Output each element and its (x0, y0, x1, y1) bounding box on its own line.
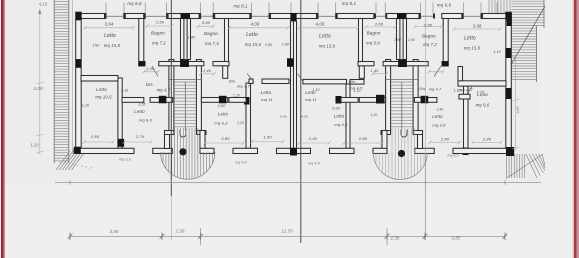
svg-text:3,00: 3,00 (218, 104, 227, 108)
svg-text:0,40: 0,40 (280, 115, 287, 119)
pier: left wall mid (76, 59, 82, 68)
canopy hatch east (376, 128, 424, 180)
pier: left wall top (76, 12, 82, 20)
svg-text:Letto: Letto (96, 87, 107, 92)
svg-text:Dis.: Dis. (229, 79, 237, 84)
wall: bagno duct west leaf (181, 19, 184, 60)
right dimension vertical line (515, 56, 517, 150)
svg-text:mq 9,6: mq 9,6 (432, 123, 446, 128)
left dim ticks (36, 135, 44, 136)
balcony rail verticals above top wall (right) (489, 0, 510, 13)
wall: top exterior seg B (right) (442, 14, 463, 19)
svg-text:2,90: 2,90 (407, 38, 415, 42)
svg-text:1,50: 1,50 (263, 135, 272, 140)
svg-text:mq 11: mq 11 (305, 97, 317, 102)
svg-text:mq 4,7: mq 4,7 (157, 88, 171, 93)
svg-text:Bagno: Bagno (422, 34, 436, 39)
svg-text:Letto: Letto (334, 114, 345, 119)
wall: corridor jog top (right) (358, 62, 374, 66)
svg-text:2,80: 2,80 (90, 134, 100, 139)
wall: letto 15,9 bottom (right) (458, 81, 506, 86)
svg-text:3,00: 3,00 (332, 107, 341, 111)
pier: left wall bottom (74, 147, 81, 154)
door leaf: letto 11 west (247, 74, 254, 83)
wall: bagno/letto divider V4 (225, 19, 229, 66)
right stair rail lines (536, 26, 538, 82)
left dimension vertical line (39, 9, 41, 155)
pier: corridor stair top (right) (398, 59, 407, 67)
svg-text:mq 6,9: mq 6,9 (366, 41, 380, 46)
pier: lower corridor west (right) (421, 96, 429, 104)
wall: bagno/letto divider V4 (right) (359, 19, 363, 66)
wall: stair flank east top (right) (359, 98, 385, 103)
wall: top exterior seg B (124, 14, 145, 19)
pier: V6 bottom (118, 139, 125, 147)
svg-text:Letto: Letto (464, 36, 476, 42)
wall: letto/bagno divider V2 (139, 19, 144, 66)
svg-text:mq 10,5: mq 10,5 (95, 95, 112, 100)
wall: entrance bracket west foot (right) (415, 148, 435, 153)
svg-text:mq 4,7: mq 4,7 (237, 84, 251, 89)
pier: top wall bagno divider (181, 13, 191, 19)
svg-text:4,00: 4,00 (33, 86, 43, 91)
wall: entrance bracket west foot (153, 148, 173, 153)
svg-text:Letto: Letto (104, 33, 116, 39)
pier: top wall party (290, 13, 293, 21)
svg-text:2,76: 2,76 (135, 134, 145, 139)
wall: top exterior seg A (78, 14, 106, 19)
svg-text:2,90: 2,90 (393, 38, 401, 42)
bottom dimension ticks (68, 233, 508, 241)
svg-text:mq 11: mq 11 (261, 97, 273, 102)
entrance column west (179, 148, 186, 155)
wall: top exterior seg D (213, 14, 251, 19)
svg-text:1,10: 1,10 (353, 89, 360, 93)
stair landing edge (right) (386, 79, 418, 81)
svg-text:mq 15,8: mq 15,8 (104, 43, 121, 48)
svg-text:2,50: 2,50 (155, 20, 165, 25)
pier: V6 bottom (right) (463, 148, 469, 156)
wall: top exterior seg A (right) (481, 14, 509, 19)
wall: stair shaft right (right) (386, 60, 391, 131)
svg-text:1,90: 1,90 (282, 43, 290, 47)
svg-text:Letto: Letto (246, 32, 258, 38)
wall: party wall center (291, 21, 294, 148)
svg-text:mq 13,6: mq 13,6 (319, 44, 336, 49)
wall: bagno strip bottom west (139, 62, 145, 66)
svg-text:1,55: 1,55 (138, 103, 145, 107)
right stair center rail (401, 82, 403, 130)
svg-text:4,10: 4,10 (39, 2, 48, 7)
bottom-right vertical hatch block (507, 154, 525, 178)
svg-text:mq 8,1: mq 8,1 (233, 4, 248, 9)
pier: corridor party (287, 58, 294, 67)
wall: top exterior seg E (center) (right) (294, 14, 319, 19)
left stair bottom diagonal fan (56, 151, 86, 170)
red border left edge (0, 0, 1, 258)
svg-text:mq 7,2: mq 7,2 (423, 42, 437, 47)
wall: letto 11 top b (262, 79, 289, 84)
bottom dimension plus crosses (200, 228, 202, 245)
wall: bottom-room divider V6 (right) (464, 86, 469, 148)
svg-text:mq 15,9: mq 15,9 (464, 46, 481, 51)
wall: entrance bracket east jog (right) (381, 131, 391, 135)
svg-text:2,80: 2,80 (220, 136, 230, 141)
wall: entrance bracket east foot (right) (373, 148, 387, 153)
wall: entrance bracket west vertical (right) (418, 131, 423, 149)
wall: left exterior (76, 12, 82, 153)
wall: letto 9,6 top (right) (459, 94, 470, 99)
left stair shaft treads (175, 82, 197, 127)
svg-text:1,10: 1,10 (82, 104, 89, 108)
door leaf: letto 11 east (298, 74, 304, 83)
wall: letto divider V9 (right) (346, 84, 350, 148)
entrance door column west (U shape) (180, 130, 186, 138)
wall: stair shaft top (right) (383, 62, 428, 66)
door leaf: corridor west (152, 66, 158, 77)
svg-text:4,00: 4,00 (251, 22, 260, 27)
wall: letto divider V9 (246, 83, 251, 148)
wall: entrance bracket east vertical (200, 131, 205, 149)
left external stair: side rails (53, 0, 55, 163)
svg-text:Dis.: Dis. (349, 79, 357, 84)
svg-text:3,94: 3,94 (105, 22, 114, 27)
wall: entrance bracket west vertical (165, 131, 170, 149)
wall: corridor jog top (213, 62, 229, 66)
svg-text:2,60: 2,60 (374, 22, 384, 27)
wall: letto 15,9 bottom stub (right) (458, 67, 463, 81)
svg-text:Dis.: Dis. (146, 82, 154, 87)
pier: top wall party (right) (294, 13, 297, 21)
wall: entrance bracket west jog (165, 131, 174, 135)
svg-text:mq 8,1: mq 8,1 (342, 1, 357, 6)
wall: letto 11 top (right) (341, 98, 358, 103)
svg-text:0,60: 0,60 (202, 21, 211, 25)
svg-text:2,30: 2,30 (390, 236, 400, 241)
svg-text:mq 6,6: mq 6,6 (437, 3, 452, 8)
pier: H4 cap (right) (336, 96, 342, 104)
wall: corridor jog V4 lower (right) (359, 66, 364, 79)
interior dimension lines (83, 24, 503, 145)
right stair diagonal cut line (512, 6, 546, 64)
wall: stair shaft right (196, 60, 201, 131)
wall: letto 9,6 top (122, 98, 144, 103)
wall: stair flank east top (201, 98, 227, 103)
window jamb caps on top wall (104, 14, 483, 19)
svg-text:3,90: 3,90 (265, 43, 272, 47)
svg-text:2,46: 2,46 (436, 108, 444, 112)
canopy arc east (373, 153, 427, 180)
svg-text:Bagno: Bagno (204, 31, 218, 36)
svg-text:1,40: 1,40 (203, 69, 212, 73)
section line through west stair (170, 0, 172, 196)
svg-text:Bagno: Bagno (366, 31, 380, 36)
svg-text:Bagno: Bagno (151, 31, 165, 36)
wall: letto divider foot (233, 148, 258, 153)
pier: right wall bottom (right) (506, 147, 514, 156)
wall: letto 15,8 bottom (81, 76, 118, 82)
red border right edge (573, 0, 575, 258)
svg-text:mq 9,6: mq 9,6 (139, 118, 153, 123)
wall: top exterior seg C (right) (386, 14, 420, 19)
svg-text:Letto: Letto (319, 34, 331, 40)
stair landing edge (169, 79, 201, 81)
wall: stair shaft left (right) (413, 60, 418, 131)
svg-text:2,30: 2,30 (175, 229, 185, 234)
svg-text:1,10: 1,10 (233, 94, 240, 98)
wall: party wall foot (right) (294, 148, 311, 153)
wall: entrance bracket west jog (right) (413, 131, 422, 135)
canopy arc west (161, 152, 215, 179)
canopy hatch west (163, 128, 212, 180)
wall: party wall center (right) (294, 21, 297, 148)
svg-text:mq 4,7: mq 4,7 (459, 88, 473, 93)
pier: right wall upper-mid (right) (506, 48, 512, 58)
pier: lower corridor east (219, 96, 227, 104)
svg-text:4,00: 4,00 (316, 22, 325, 27)
wall: top exterior seg D (right) (336, 14, 374, 19)
wall: bottom-room divider V6 (118, 78, 122, 148)
wall: bagno duct east leaf (187, 19, 190, 60)
svg-text:1,40: 1,40 (371, 69, 380, 73)
wall: letto 11 top (right) (303, 79, 347, 84)
pier: lower corridor east (right) (376, 95, 385, 104)
svg-text:mq 9,3: mq 9,3 (334, 122, 348, 127)
wall: stair flank west top (150, 98, 173, 103)
wall: party wall foot (277, 148, 294, 153)
wall: bottom exterior west (right) (453, 148, 513, 153)
svg-text:3,85: 3,85 (110, 229, 119, 234)
pier: corridor stair top (180, 59, 189, 67)
wall: bottom exterior west (74, 148, 134, 153)
svg-text:Dis.: Dis. (419, 87, 426, 91)
wall: entrance bracket east foot (200, 148, 214, 153)
svg-text:2,80: 2,80 (358, 136, 368, 141)
svg-text:mq 6,6: mq 6,6 (235, 161, 247, 165)
svg-text:mq 15,6: mq 15,6 (245, 42, 262, 47)
wall: corridor jog V4 lower (223, 66, 228, 79)
left stair bottom tick marks (60, 162, 92, 169)
svg-text:2,40: 2,40 (516, 106, 520, 114)
left external stair: treads hatch (54, 2, 69, 161)
entrance door column east (U shape) (401, 130, 407, 138)
svg-text:2,90: 2,90 (423, 23, 433, 28)
svg-text:mq 9,3: mq 9,3 (214, 121, 228, 126)
svg-text:mq 4,5: mq 4,5 (448, 154, 459, 158)
svg-text:mq 7,2: mq 7,2 (152, 41, 166, 46)
svg-text:1,20: 1,20 (371, 113, 378, 117)
svg-text:mq 4,5: mq 4,5 (308, 162, 320, 166)
pier: right wall lower-mid (right) (506, 88, 512, 99)
svg-text:Letto: Letto (134, 109, 145, 114)
svg-text:Letto: Letto (261, 90, 272, 95)
pier: lower corridor west (159, 96, 167, 104)
svg-text:Letto: Letto (432, 114, 443, 119)
right stair shaft treads (391, 82, 413, 127)
svg-text:150: 150 (92, 43, 100, 48)
left stair center rail (184, 82, 186, 130)
center axis line (300, 0, 302, 243)
svg-text:4,00: 4,00 (301, 115, 308, 119)
svg-text:mq 7,5: mq 7,5 (205, 41, 219, 46)
svg-text:1,20: 1,20 (30, 143, 39, 148)
svg-text:1,80: 1,80 (188, 36, 196, 40)
svg-text:1,20: 1,20 (237, 121, 244, 125)
pier: top wall bagno divider (right) (397, 13, 407, 19)
wall: stair flank west top (right) (414, 98, 437, 103)
pier: V9 top (244, 97, 250, 105)
pier: top wall right corner (507, 13, 512, 26)
wall: stair shaft left (169, 60, 174, 131)
door leaf: letto 15,9 (466, 86, 472, 95)
right external stair: treads hatch (512, 1, 545, 79)
svg-text:3,85: 3,85 (452, 236, 461, 241)
pier: right wall top (right) (506, 12, 512, 20)
wall: letto/bagno divider V2 (right) (443, 19, 448, 66)
svg-text:1,10: 1,10 (493, 50, 501, 54)
wall: entrance bracket east vertical (right) (382, 131, 387, 149)
bottom dimension line (70, 235, 505, 237)
window reveal ticks above exterior wall (106, 3, 497, 14)
window sill lines in top wall gaps (106, 15, 481, 17)
svg-text:Letto: Letto (305, 90, 316, 95)
wall: bagno duct east leaf (right) (397, 19, 400, 60)
svg-text:1,40: 1,40 (146, 67, 155, 71)
bottom-right steps edge (506, 154, 543, 179)
pier: party wall bottom (right) (294, 148, 298, 156)
wall: top exterior seg C (167, 14, 201, 19)
wall: letto 11 top a (249, 79, 253, 84)
ground / terrain line (55, 181, 541, 183)
wall: corridor jog piece (right) (350, 80, 364, 85)
door leaf: corridor east (434, 66, 441, 77)
pier: party wall bottom (290, 148, 294, 156)
svg-text:1,10: 1,10 (453, 89, 460, 93)
pier: V2 corner (139, 61, 145, 66)
svg-text:3,98: 3,98 (473, 24, 482, 29)
wall: bagno duct west leaf (right) (403, 19, 406, 60)
svg-text:Letto: Letto (477, 92, 488, 97)
section line through east stair (424, 0, 426, 155)
wall: stair shaft top (159, 62, 204, 66)
wall: right exterior (right) (506, 12, 512, 153)
svg-text:2,40: 2,40 (482, 137, 492, 142)
wall: bagno strip bottom west (right) (442, 62, 448, 66)
svg-text:mq 4,7: mq 4,7 (429, 88, 442, 92)
wall: letto divider foot (right) (330, 148, 355, 153)
svg-text:mq 0,9: mq 0,9 (119, 158, 131, 162)
svg-text:11,70: 11,70 (281, 229, 293, 234)
wall: entrance bracket east jog (197, 131, 207, 135)
svg-text:2,40: 2,40 (308, 136, 318, 141)
ground line ticks (70, 180, 505, 185)
svg-text:mq 6,6: mq 6,6 (127, 1, 142, 6)
wall: top exterior seg E (center) (269, 14, 294, 19)
bottom-right diagonal fan (526, 154, 545, 178)
svg-text:1,10: 1,10 (121, 89, 129, 93)
svg-text:2,80: 2,80 (440, 137, 450, 142)
pier: V2 corner (right) (442, 61, 448, 66)
entrance column east (398, 150, 405, 157)
left dimension arrowhead (38, 9, 41, 14)
svg-text:mq 9,6: mq 9,6 (476, 103, 490, 108)
svg-text:Letto: Letto (218, 112, 229, 117)
wall: letto 11 top (229, 98, 246, 103)
